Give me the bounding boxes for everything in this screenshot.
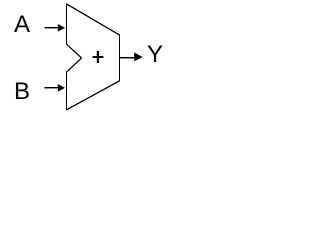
svg-text:Y: Y: [147, 41, 163, 68]
arrowhead input A: [58, 24, 65, 32]
adder U1 body : bottom slope edge: [66, 81, 120, 110]
adder U1 body : left edge upper segment: [66, 4, 68, 45]
plus operator label: [93, 56, 104, 58]
adder U1 body : notch lower slope: [66, 58, 81, 72]
adder U1 body : top slope edge: [66, 4, 120, 35]
svg-text:A: A: [14, 11, 30, 38]
wire output Y: [120, 57, 135, 59]
svg-text:B: B: [14, 78, 30, 105]
adder U1 body : right edge: [119, 35, 121, 81]
wire input A: [45, 27, 59, 29]
adder U1 body : left edge lower segment: [66, 72, 68, 110]
arrowhead output Y: [134, 53, 143, 62]
adder U1 body : notch upper slope: [66, 44, 81, 58]
arrowhead input B: [58, 84, 65, 92]
wire input B: [45, 87, 59, 89]
